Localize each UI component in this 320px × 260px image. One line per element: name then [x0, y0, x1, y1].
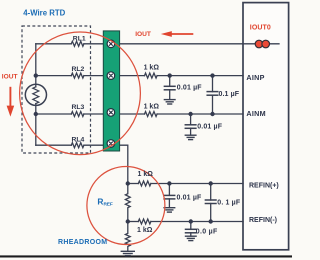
ground bottom — [121, 251, 134, 255]
ADC block U1 — [243, 3, 289, 250]
svg-text:RHEADROOM: RHEADROOM — [58, 239, 107, 246]
ground for C4 — [164, 208, 175, 212]
resistor 1kΩ AINM — [145, 112, 158, 117]
wire RL1 row left — [36, 43, 72, 45]
node REFIN- 0.1uF junction — [209, 219, 213, 223]
wire RL2 row left — [36, 75, 72, 77]
resistor Rheadroom vertical — [125, 222, 130, 252]
RTD sensor body — [25, 84, 46, 105]
wire RL4 row left — [36, 144, 72, 146]
svg-text:REFIN(-): REFIN(-) — [249, 217, 277, 224]
node REFIN- left junction — [126, 219, 130, 223]
wire RL2 to terminal — [84, 75, 103, 77]
wire RL4 to terminal — [84, 144, 103, 146]
dashed RTD enclosure box — [22, 26, 91, 153]
resistor 1kΩ AINP — [145, 73, 158, 78]
bottom border line — [0, 255, 292, 257]
svg-text:1 kΩ: 1 kΩ — [144, 65, 160, 72]
IOUT current arrow (left, down) — [7, 87, 15, 117]
node AINP cap junction — [168, 73, 172, 77]
wire AINP row to ADC — [157, 75, 243, 77]
node RTD bottom junction — [34, 112, 38, 116]
capacitor C5 0.1uF between REFIN rows — [205, 184, 216, 222]
node REFIN+ 0.1uF junction — [209, 181, 213, 185]
wire RL3 to terminal — [84, 113, 103, 115]
wire REFIN(+) row — [128, 183, 139, 185]
wire IOUT0 row — [120, 43, 279, 45]
svg-text:RL2: RL2 — [72, 66, 85, 73]
node AINM 0.1uF junction — [210, 112, 214, 116]
svg-text:IOUT: IOUT — [135, 31, 151, 38]
ground for C6 — [186, 236, 197, 240]
node REFIN+ left junction — [126, 181, 130, 185]
svg-text:AINM: AINM — [246, 109, 266, 118]
resistor RREF vertical — [125, 184, 130, 222]
terminal 3 — [107, 109, 115, 117]
terminal 1 — [107, 40, 115, 48]
capacitor C2 0.1uF between AINP and AINM — [207, 76, 218, 114]
RTD element zigzag — [33, 87, 39, 104]
capacitor C1 0.01uF AINP — [164, 76, 175, 100]
capacitor C6 0.0uF REFIN(-) — [186, 222, 197, 237]
resistor RL1 — [71, 41, 84, 46]
resistor RL3 — [71, 112, 84, 117]
resistor RL2 — [71, 73, 84, 78]
svg-text:4-Wire RTD: 4-Wire RTD — [23, 9, 65, 18]
wire REFIN(+) to ADC — [151, 183, 243, 185]
svg-text:REFIN(+): REFIN(+) — [249, 182, 279, 189]
svg-text:RL1: RL1 — [73, 35, 86, 42]
svg-text:RL4: RL4 — [72, 137, 85, 144]
svg-text:0.01 µF: 0.01 µF — [177, 84, 203, 91]
svg-text:0.0 µF: 0.0 µF — [196, 229, 218, 236]
capacitor C3 0.01uF AINM — [185, 114, 196, 135]
wire REFIN(-) row — [128, 221, 139, 223]
svg-text:IOUT: IOUT — [2, 74, 18, 81]
ground for C1 — [164, 100, 175, 104]
wire REFIN(-) to ADC — [151, 221, 243, 223]
svg-text:0. 1 µF: 0. 1 µF — [217, 199, 241, 206]
terminal 2 — [107, 72, 115, 80]
node REFIN+ cap junction — [167, 181, 171, 185]
node AINM cap junction — [188, 112, 192, 116]
wire left vertical bus upper — [35, 44, 37, 87]
red highlight circle around RREF — [87, 167, 165, 245]
svg-text:IOUT0: IOUT0 — [250, 24, 271, 31]
wire AINM row to ADC — [157, 113, 243, 115]
wire left vertical bus lower — [35, 104, 37, 146]
svg-text:AINP: AINP — [246, 73, 264, 82]
ground for C3 — [185, 135, 196, 139]
wire RL3 row left — [36, 113, 72, 115]
resistor 1kΩ REFIN(-) — [138, 219, 151, 224]
red jumper circles on IOUT0 line — [255, 40, 269, 48]
node AINP 0.1uF junction — [210, 73, 214, 77]
svg-text:RL3: RL3 — [72, 104, 85, 111]
node RTD top junction — [34, 73, 38, 77]
red highlight ellipse around RTD network — [20, 32, 141, 155]
svg-text:1 kΩ: 1 kΩ — [144, 104, 160, 111]
wire from terminal 4 to reference chain — [120, 145, 128, 183]
svg-text:0.1 µF: 0.1 µF — [219, 91, 240, 98]
resistor RL4 — [71, 143, 84, 148]
svg-text:1 kΩ: 1 kΩ — [137, 227, 153, 234]
terminal block (green) — [103, 31, 119, 151]
wire AINM row: bar to resistor — [120, 113, 145, 115]
svg-text:1 kΩ: 1 kΩ — [138, 171, 154, 178]
svg-text:0.01 µF: 0.01 µF — [177, 194, 203, 201]
capacitor C4 0.01uF REFIN(+) — [164, 184, 175, 208]
svg-text:0.01 µF: 0.01 µF — [197, 123, 223, 130]
resistor 1kΩ REFIN(+) — [138, 181, 151, 186]
node REFIN- cap junction — [189, 219, 193, 223]
wire RL1 to terminal — [84, 43, 103, 45]
terminal 4 — [107, 140, 115, 148]
wire AINP row: bar to resistor — [120, 75, 145, 77]
IOUT current arrow (top, left) — [161, 31, 194, 37]
